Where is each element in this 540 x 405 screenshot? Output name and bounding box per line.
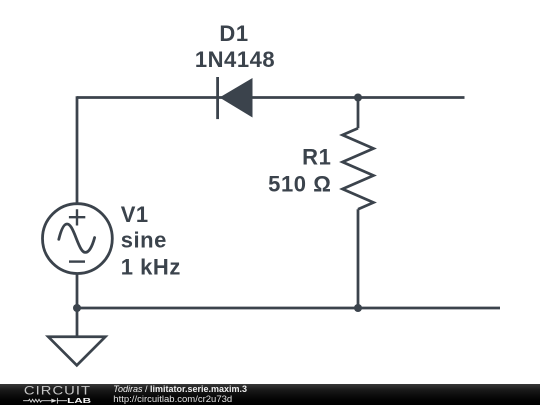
svg-text:V1: V1 [121, 202, 149, 227]
svg-text:D1: D1 [219, 21, 248, 46]
svg-text:1N4148: 1N4148 [195, 47, 275, 72]
svg-text:sine: sine [121, 228, 167, 253]
svg-text:1 kHz: 1 kHz [121, 254, 181, 279]
svg-text:CIRCUIT: CIRCUIT [24, 384, 91, 397]
svg-text:Todiras / limitator.serie.maxi: Todiras / limitator.serie.maxim.3 [113, 384, 247, 394]
svg-text:http://circuitlab.com/cr2u73d: http://circuitlab.com/cr2u73d [113, 394, 232, 404]
svg-text:R1: R1 [302, 145, 331, 170]
svg-text:LAB: LAB [67, 397, 91, 405]
svg-text:510 Ω: 510 Ω [268, 172, 331, 197]
